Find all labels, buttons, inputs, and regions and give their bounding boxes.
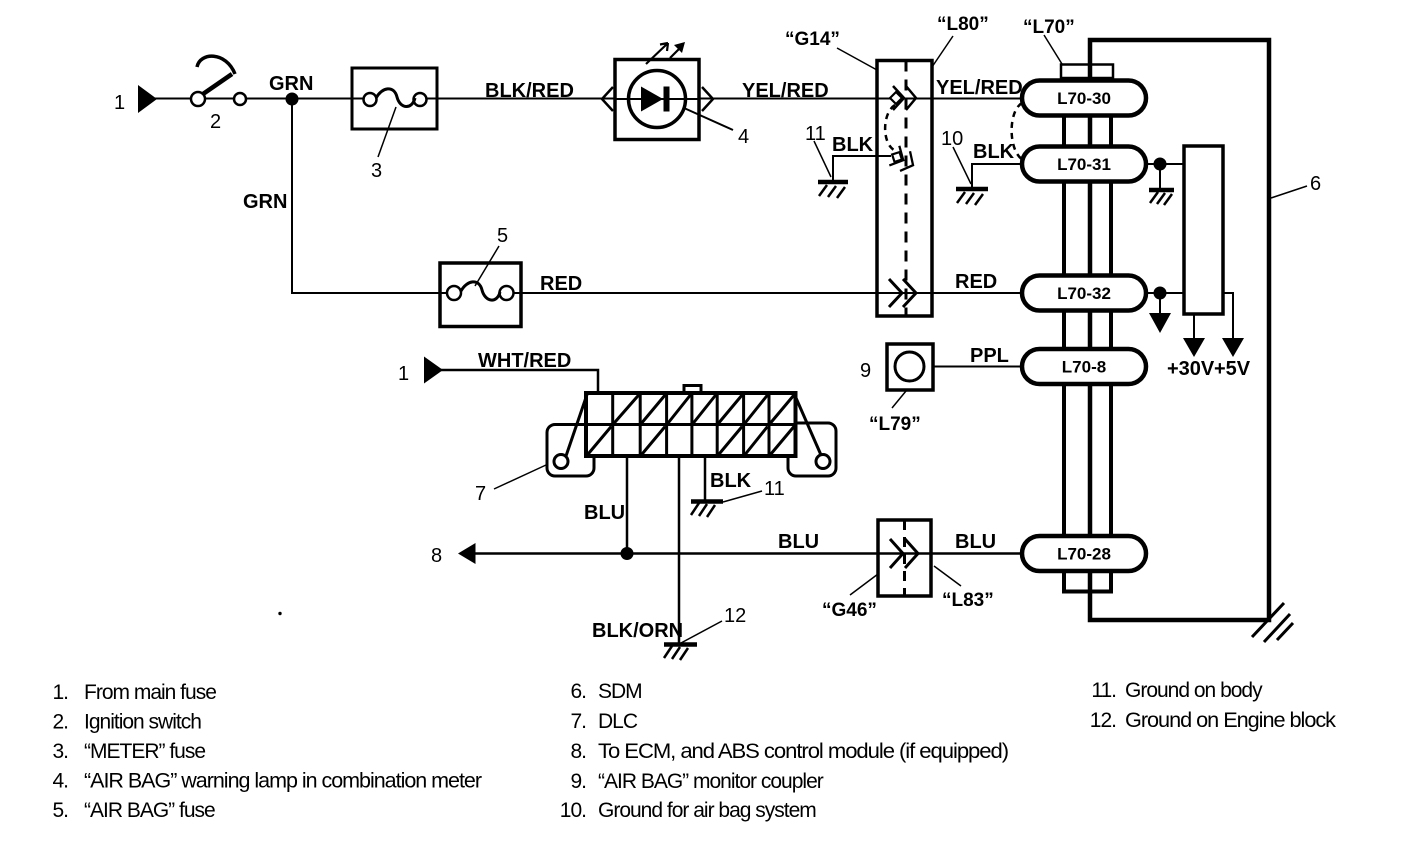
monitor coupler L79 box xyxy=(887,344,933,390)
svg-text:4: 4 xyxy=(738,126,749,148)
terminal pill L70-31 xyxy=(1022,147,1146,182)
stray mark xyxy=(278,612,281,615)
DLC row divider xyxy=(586,423,796,426)
svg-text:Ignition switch: Ignition switch xyxy=(84,711,201,734)
wire BLU from DLC xyxy=(626,456,629,554)
wire row5 BLU left xyxy=(474,552,1030,555)
G14 row1 terminal diamond xyxy=(890,92,902,104)
warning lamp U4 box xyxy=(615,60,699,140)
DLC left flare xyxy=(566,395,587,457)
svg-text:8: 8 xyxy=(431,545,442,567)
svg-text:1: 1 xyxy=(398,363,409,385)
label L80 leader xyxy=(932,36,953,67)
chevron right of lamp xyxy=(702,87,713,111)
label 6 leader xyxy=(1271,186,1307,198)
ground inside SDM xyxy=(1159,164,1161,188)
svg-text:11: 11 xyxy=(805,123,826,145)
label 4 leader xyxy=(684,108,733,130)
label L83 leader xyxy=(934,566,961,586)
svg-text:“G46”: “G46” xyxy=(822,600,877,621)
arrow +5V from block xyxy=(1223,293,1233,338)
svg-text:2: 2 xyxy=(210,111,221,133)
label 11 leader xyxy=(814,141,831,177)
svg-text:3.: 3. xyxy=(52,740,68,763)
svg-text:BLK: BLK xyxy=(832,134,874,156)
label 12 leader xyxy=(681,621,722,643)
svg-text:Ground for air bag system: Ground for air bag system xyxy=(598,799,816,822)
svg-text:BLK: BLK xyxy=(973,141,1015,163)
wire BLK ground to L70-31 xyxy=(972,164,1030,187)
svg-text:9: 9 xyxy=(860,360,871,382)
wire GRN vertical to row3 xyxy=(292,99,454,293)
svg-text:From main fuse: From main fuse xyxy=(84,681,216,704)
connector G46/L83 body xyxy=(878,520,931,596)
warning lamp diode triangle xyxy=(641,87,663,112)
DLC left ear xyxy=(547,425,594,477)
svg-text:2.: 2. xyxy=(52,711,68,734)
svg-text:11.: 11. xyxy=(1091,679,1116,702)
G46 chevrons xyxy=(890,539,918,568)
svg-text:L70-28: L70-28 xyxy=(1057,545,1111,564)
wire row1 YEL/RED (lamp to L70-30) xyxy=(155,98,1030,100)
DLC grid body xyxy=(586,393,796,456)
lamp light arrow b xyxy=(670,48,680,58)
arrow 1 from main fuse xyxy=(138,85,157,113)
svg-text:12.: 12. xyxy=(1090,709,1116,732)
svg-text:7.: 7. xyxy=(570,710,586,733)
ground 11 on body (below DLC) xyxy=(691,499,723,504)
fuse F5 element xyxy=(461,282,500,300)
svg-text:“G14”: “G14” xyxy=(785,29,840,50)
label L70 leader xyxy=(1044,35,1062,64)
G14 row1 chevron xyxy=(906,86,916,110)
terminal pill L70-8 xyxy=(1022,349,1146,384)
DLC diagonals bottom row xyxy=(588,427,794,455)
svg-text:10.: 10. xyxy=(560,799,586,822)
wire BLK from DLC xyxy=(704,456,707,500)
svg-text:“AIR BAG” warning lamp in comb: “AIR BAG” warning lamp in combination me… xyxy=(84,770,482,793)
svg-text:1.: 1. xyxy=(52,681,68,704)
G14 row3 chevrons xyxy=(889,279,916,307)
chevron left of lamp xyxy=(602,87,613,111)
svg-text:L70-31: L70-31 xyxy=(1057,155,1111,174)
svg-text:11: 11 xyxy=(764,478,785,500)
connector G14/L80 body xyxy=(877,61,932,317)
label 7 leader xyxy=(494,465,546,489)
connector L70 top cap xyxy=(1061,65,1113,79)
svg-text:3: 3 xyxy=(371,160,382,182)
terminal pill L70-32 xyxy=(1022,276,1146,311)
label L79 leader xyxy=(892,391,906,408)
svg-text:9.: 9. xyxy=(570,770,586,793)
DLC column dividers xyxy=(613,393,769,456)
svg-text:SDM: SDM xyxy=(598,680,642,703)
svg-text:“L79”: “L79” xyxy=(869,414,921,435)
connector L70 body (vertical lines and bottom U) xyxy=(1062,78,1113,592)
node GRN junction xyxy=(286,93,299,106)
svg-text:6: 6 xyxy=(1310,173,1321,195)
connector G14/L80 dashed divider xyxy=(905,61,908,317)
svg-text:BLK: BLK xyxy=(710,470,752,492)
fuse F5 terminals xyxy=(447,286,461,300)
wire L70-31 to block xyxy=(1146,163,1184,165)
svg-text:4.: 4. xyxy=(52,770,68,793)
svg-text:BLK/RED: BLK/RED xyxy=(485,80,574,102)
ground 10 for air bag system xyxy=(956,187,988,192)
svg-text:L70-8: L70-8 xyxy=(1062,358,1106,377)
monitor coupler circle xyxy=(895,352,924,381)
svg-text:BLU: BLU xyxy=(584,502,625,524)
svg-text:+30V: +30V xyxy=(1167,358,1215,380)
svg-text:Ground on body: Ground on body xyxy=(1125,679,1263,702)
svg-text:5: 5 xyxy=(497,225,508,247)
dashed arc at L70-30/31 xyxy=(1012,103,1023,160)
svg-text:“L70”: “L70” xyxy=(1023,17,1075,38)
arrow +30V from block xyxy=(1193,314,1195,338)
G46 dashed divider xyxy=(903,520,906,596)
svg-text:“METER” fuse: “METER” fuse xyxy=(84,740,205,763)
SDM internal block xyxy=(1184,146,1223,314)
svg-text:L70-32: L70-32 xyxy=(1057,284,1111,303)
svg-text:6.: 6. xyxy=(570,680,586,703)
svg-text:“L80”: “L80” xyxy=(937,14,989,35)
fuse F3 element xyxy=(376,89,415,107)
svg-text:Ground on Engine block: Ground on Engine block xyxy=(1125,709,1337,732)
svg-text:BLU: BLU xyxy=(955,531,996,553)
svg-text:“AIR BAG” monitor coupler: “AIR BAG” monitor coupler xyxy=(598,770,824,793)
DLC right flare xyxy=(795,395,822,456)
wire BLK/ORN from DLC xyxy=(678,456,681,643)
svg-text:8.: 8. xyxy=(570,740,586,763)
wire PPL to L70-8 xyxy=(933,366,1030,368)
svg-text:DLC: DLC xyxy=(598,710,638,733)
DLC left ear hole xyxy=(554,455,568,469)
svg-text:12: 12 xyxy=(724,605,746,627)
svg-text:YEL/RED: YEL/RED xyxy=(742,80,829,102)
arrow 1 from main fuse (row WHT/RED) xyxy=(424,357,443,384)
fuse F3 terminals xyxy=(364,93,377,106)
label 5 leader xyxy=(475,246,499,286)
label 3 leader xyxy=(378,107,396,157)
wire through lamp xyxy=(616,98,699,100)
svg-text:WHT/RED: WHT/RED xyxy=(478,350,571,372)
ignition switch S2 contact right xyxy=(234,93,246,105)
node junction at L70-32 xyxy=(1154,287,1167,300)
ignition switch S2 lever arc xyxy=(197,56,235,74)
svg-text:GRN: GRN xyxy=(269,73,313,95)
node junction BLU xyxy=(621,547,634,560)
arrow down from L70-32 junction xyxy=(1159,293,1161,313)
warning lamp U4 circle xyxy=(629,71,686,128)
label G14 leader xyxy=(837,48,877,70)
svg-text:To ECM, and ABS control module: To ECM, and ABS control module (if equip… xyxy=(598,740,1008,763)
G14 dashed arc xyxy=(885,105,895,150)
G14 row2 terminal group xyxy=(887,145,918,175)
ground 11 on body (near G14) xyxy=(818,180,848,185)
arrow 8 to ECM xyxy=(458,543,476,564)
label 11 leader second xyxy=(723,491,762,502)
svg-text:7: 7 xyxy=(475,483,486,505)
warning lamp diode bar xyxy=(664,87,670,112)
svg-text:L70-30: L70-30 xyxy=(1057,89,1111,108)
svg-text:“L83”: “L83” xyxy=(942,590,994,611)
DLC right ear xyxy=(788,423,836,476)
label 10 leader xyxy=(953,147,971,184)
svg-text:GRN: GRN xyxy=(243,191,287,213)
svg-text:5.: 5. xyxy=(52,799,68,822)
terminal pill L70-30 xyxy=(1022,81,1146,116)
wire L70-32 to block xyxy=(1146,292,1184,294)
svg-text:PPL: PPL xyxy=(970,345,1009,367)
lamp light arrow a xyxy=(646,43,668,64)
fuse F5 AIR BAG box xyxy=(440,263,521,327)
SDM box U6 outline xyxy=(1090,40,1269,620)
svg-text:RED: RED xyxy=(955,271,997,293)
DLC right ear hole xyxy=(816,455,830,469)
svg-text:+5V: +5V xyxy=(1214,358,1251,380)
ground 12 on engine block xyxy=(664,642,697,647)
svg-text:10: 10 xyxy=(941,128,963,150)
ignition switch S2 lever xyxy=(203,74,232,94)
G14 row1 terminal chevron wings xyxy=(893,86,904,110)
svg-text:“AIR BAG” fuse: “AIR BAG” fuse xyxy=(84,799,215,822)
DLC tab xyxy=(684,386,701,395)
svg-text:1: 1 xyxy=(114,92,125,114)
svg-text:RED: RED xyxy=(540,273,582,295)
ignition switch S2 contact left xyxy=(191,92,205,106)
wire row3 RED fuse5 to L70-32 xyxy=(507,292,1030,294)
svg-text:BLU: BLU xyxy=(778,531,819,553)
fuse F3 METER box xyxy=(352,68,437,129)
wire BLK to G14 row2 xyxy=(833,156,891,180)
node junction at L70-31 xyxy=(1154,158,1167,171)
ground hatch on SDM corner (ground on engine block) xyxy=(1252,603,1293,642)
svg-text:BLK/ORN: BLK/ORN xyxy=(592,620,683,642)
DLC diagonals top row xyxy=(614,395,794,423)
label G46 leader xyxy=(850,574,878,595)
terminal pill L70-28 xyxy=(1022,536,1146,571)
svg-text:YEL/RED: YEL/RED xyxy=(936,77,1023,99)
wire WHT/RED to DLC xyxy=(441,370,598,394)
